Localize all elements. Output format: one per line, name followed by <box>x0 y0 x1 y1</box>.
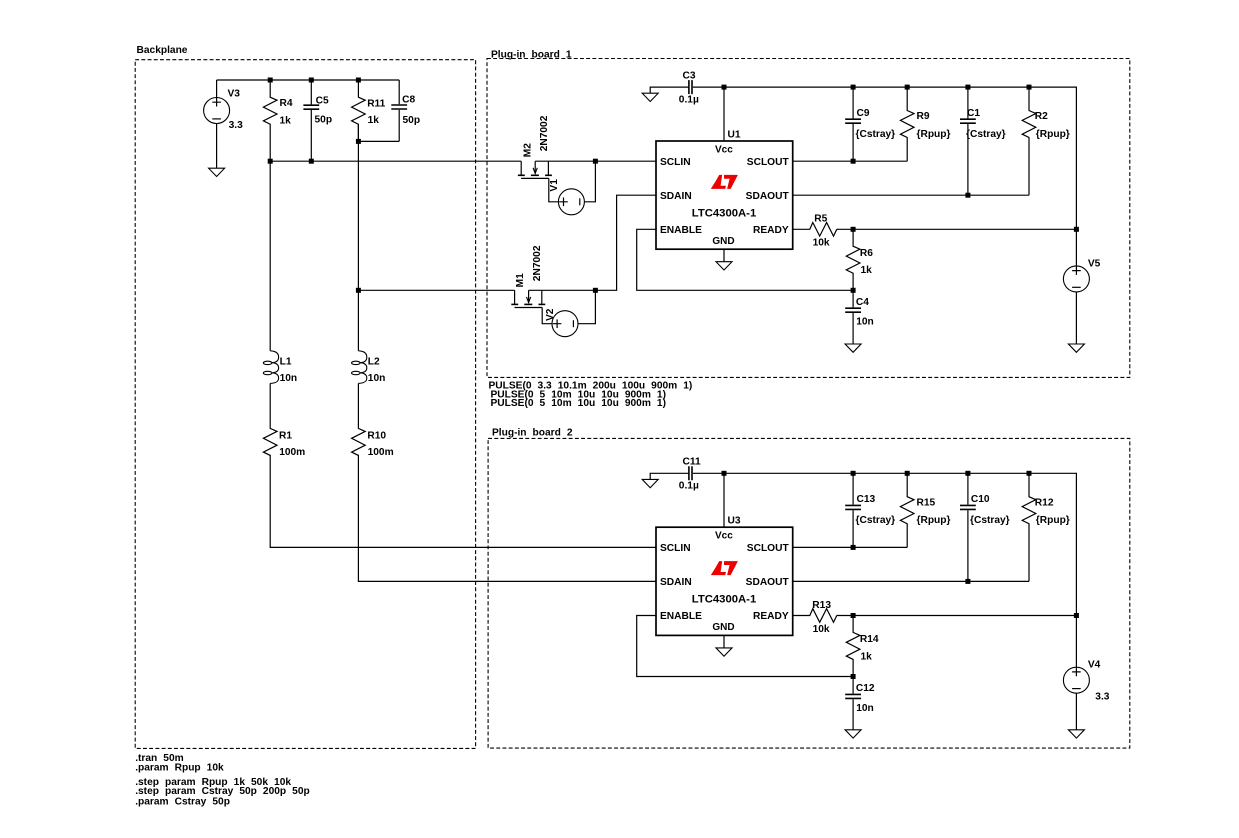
wire V5 bottom lead <box>1075 292 1077 344</box>
svg-text:C5: C5 <box>316 95 329 106</box>
voltage source V4 <box>1063 667 1089 693</box>
svg-text:{Cstray}: {Cstray} <box>966 129 1006 140</box>
svg-text:10n: 10n <box>280 373 298 384</box>
resistor R12 <box>1022 473 1036 581</box>
wire C3 to Vcc rail <box>693 86 724 88</box>
junction SCLOUT2 / C13 <box>851 545 856 550</box>
svg-text:10n: 10n <box>856 317 874 328</box>
svg-text:C13: C13 <box>857 494 876 505</box>
svg-text:{Cstray}: {Cstray} <box>856 129 896 140</box>
svg-text:R9: R9 <box>917 111 930 122</box>
wire SDAOUT (board 2) <box>793 580 1029 582</box>
svg-text:Vcc: Vcc <box>715 531 733 542</box>
svg-text:L2: L2 <box>368 356 380 367</box>
svg-text:2N7002: 2N7002 <box>539 115 550 151</box>
junction ENABLE / C4 <box>851 288 856 293</box>
wire V3 top lead <box>216 80 218 98</box>
svg-text:R15: R15 <box>917 497 936 508</box>
wire SDA column upper <box>357 124 359 351</box>
wire U3 GND pin lead <box>723 635 725 648</box>
capacitor C3 <box>689 80 692 94</box>
voltage source V2 <box>552 311 578 337</box>
svg-text:R5: R5 <box>814 214 827 225</box>
transistor M2 (2N7002 NMOS) <box>520 161 522 175</box>
resistor R13 <box>793 609 837 623</box>
svg-text:C11: C11 <box>683 457 701 468</box>
svg-text:SCLOUT: SCLOUT <box>747 157 790 168</box>
wire V3 bottom lead <box>216 124 218 169</box>
svg-text:{Rpup}: {Rpup} <box>1036 515 1070 526</box>
wire top rail (backplane Vcc) <box>217 79 400 81</box>
svg-text:SDAOUT: SDAOUT <box>746 577 790 588</box>
svg-text:V5: V5 <box>1088 259 1101 270</box>
capacitor C9 <box>852 87 854 118</box>
wire SDA column lower to Plug-in board 2 <box>358 455 656 582</box>
junction SCL / C5 <box>309 159 314 164</box>
junction SDAIN node <box>593 288 598 293</box>
svg-text:10k: 10k <box>813 238 830 249</box>
svg-text:M1: M1 <box>515 273 526 287</box>
wire SCL (backplane bus) <box>270 160 521 162</box>
wire READY node (board 2) <box>837 615 1077 617</box>
resistor R2 <box>1022 87 1036 195</box>
svg-text:C4: C4 <box>856 297 869 308</box>
svg-text:U1: U1 <box>728 129 741 140</box>
voltage source V5 <box>1063 266 1089 292</box>
svg-text:Plug-in board 2: Plug-in board 2 <box>492 428 573 439</box>
wire V1 to SCLIN node <box>584 161 595 202</box>
ground (C4) <box>845 344 861 352</box>
resistor R9 <box>900 87 914 161</box>
svg-text:R12: R12 <box>1035 497 1054 508</box>
ground (V4) <box>1068 730 1084 738</box>
svg-text:U3: U3 <box>728 516 741 527</box>
Backplane boundary (dashed box) <box>135 60 475 749</box>
voltage source V3 <box>204 98 230 124</box>
svg-text:LTC4300A-1: LTC4300A-1 <box>692 207 756 219</box>
svg-text:100m: 100m <box>368 447 394 458</box>
wire C11 to Vcc rail <box>693 472 724 474</box>
svg-text:R10: R10 <box>367 430 386 441</box>
inductor L1 <box>270 351 278 384</box>
svg-text:.param Rpup 10k: .param Rpup 10k <box>135 763 224 774</box>
capacitor C8 <box>398 80 400 104</box>
junction SDAOUT / C1 <box>965 193 970 198</box>
junction READY2 / V4 rail <box>1074 613 1079 618</box>
svg-text:R6: R6 <box>860 248 873 259</box>
junction SCL / R4 column <box>268 159 273 164</box>
wire C8 bottom to R11 column <box>358 140 399 142</box>
wire SDAIN node to corner <box>529 195 656 290</box>
junction rail / R9 <box>905 85 910 90</box>
svg-text:0.1µ: 0.1µ <box>679 94 699 105</box>
resistor R6 <box>846 229 860 290</box>
svg-text:C3: C3 <box>683 70 696 81</box>
junction top rail / C5 <box>309 78 314 83</box>
svg-text:SDAIN: SDAIN <box>660 191 692 202</box>
junction SDAOUT2 / C10 <box>965 579 970 584</box>
wire Vcc rail (board 1) <box>724 87 1076 266</box>
svg-text:M2: M2 <box>522 143 533 157</box>
svg-text:1k: 1k <box>861 651 873 662</box>
ground (C3) <box>642 93 658 101</box>
junction ENABLE2 / C12 <box>851 674 856 679</box>
capacitor C11 <box>689 466 692 480</box>
resistor R4 <box>263 80 277 161</box>
svg-text:{Rpup}: {Rpup} <box>1036 129 1070 140</box>
wire SCLIN node to U1 <box>535 160 656 162</box>
junction rail2 / R12 <box>1027 471 1032 476</box>
svg-text:ENABLE: ENABLE <box>660 225 702 236</box>
wire L2 to R10 <box>357 383 359 428</box>
svg-text:LTC4300A-1: LTC4300A-1 <box>692 594 756 606</box>
capacitor C13 <box>852 473 854 504</box>
svg-text:READY: READY <box>753 611 789 622</box>
junction READY / V5 rail <box>1074 227 1079 232</box>
junction top rail / R11 <box>356 78 361 83</box>
svg-text:L1: L1 <box>280 356 292 367</box>
svg-text:3.3: 3.3 <box>1095 691 1109 702</box>
svg-text:1k: 1k <box>861 265 873 276</box>
wire SCLOUT <box>793 160 908 162</box>
wire SCL column upper <box>269 161 271 351</box>
junction top rail / R4 <box>268 78 273 83</box>
transistor M1 (2N7002 NMOS) <box>514 290 516 304</box>
ground (C11) <box>642 479 658 487</box>
junction rail / Vcc pin <box>722 85 727 90</box>
wire SCLOUT (board 2) <box>793 546 908 548</box>
resistor R11 <box>352 80 366 141</box>
ground (V5) <box>1068 344 1084 352</box>
junction rail2 / C10 <box>965 471 970 476</box>
svg-text:50p: 50p <box>403 115 421 126</box>
junction rail / C1 <box>965 85 970 90</box>
svg-text:R2: R2 <box>1035 111 1048 122</box>
junction READY2 / R14 <box>851 613 856 618</box>
svg-text:V4: V4 <box>1088 660 1101 671</box>
ground (C12) <box>845 730 861 738</box>
wire SCL column lower to Plug-in board 2 <box>270 455 656 548</box>
inductor L2 <box>358 351 366 384</box>
U3 Linear Technology logo <box>711 561 738 575</box>
wire SDA (backplane bus) <box>358 289 514 291</box>
capacitor C5 <box>310 80 312 104</box>
wire M1 gate lead to V2 <box>542 308 552 324</box>
svg-text:SCLOUT: SCLOUT <box>747 543 790 554</box>
svg-text:SCLIN: SCLIN <box>660 157 691 168</box>
svg-text:R14: R14 <box>860 634 879 645</box>
svg-text:SCLIN: SCLIN <box>660 543 691 554</box>
svg-text:V2: V2 <box>545 308 556 321</box>
junction READY / R6 <box>851 227 856 232</box>
junction rail / C9 <box>851 85 856 90</box>
svg-text:R13: R13 <box>812 600 831 611</box>
resistor R5 <box>793 223 837 237</box>
svg-text:SDAIN: SDAIN <box>660 577 692 588</box>
svg-text:C12: C12 <box>856 683 875 694</box>
junction rail2 / C13 <box>851 471 856 476</box>
svg-text:50p: 50p <box>315 115 333 126</box>
capacitor C10 <box>967 473 969 504</box>
svg-text:C8: C8 <box>402 95 415 106</box>
resistor R15 <box>900 473 914 547</box>
capacitor C1 <box>967 87 969 118</box>
junction rail / R2 <box>1027 85 1032 90</box>
wire READY node <box>837 228 1077 230</box>
svg-text:.param Cstray 50p: .param Cstray 50p <box>135 796 230 807</box>
svg-text:Vcc: Vcc <box>715 144 733 155</box>
IC U3 LTC4300A-1 (body) <box>656 527 793 635</box>
svg-text:GND: GND <box>712 622 734 633</box>
Plug-in board 1 boundary (dashed box) <box>487 59 1130 378</box>
wire U3 Vcc pin to rail <box>723 473 725 527</box>
junction SCLOUT / C9 <box>851 159 856 164</box>
svg-text:ENABLE: ENABLE <box>660 611 702 622</box>
voltage source V1 <box>558 189 584 215</box>
wire V4 bottom lead <box>1075 693 1077 730</box>
svg-text:10k: 10k <box>813 624 830 635</box>
wire V2 to SDAIN node <box>578 290 595 323</box>
svg-text:{Rpup}: {Rpup} <box>917 129 951 140</box>
svg-text:V1: V1 <box>549 179 560 192</box>
capacitor C4 <box>852 290 854 307</box>
svg-text:10n: 10n <box>368 373 386 384</box>
svg-text:GND: GND <box>712 236 734 247</box>
svg-text:0.1µ: 0.1µ <box>679 481 699 492</box>
resistor R1 <box>263 428 277 456</box>
svg-text:1k: 1k <box>280 116 292 127</box>
svg-text:{Rpup}: {Rpup} <box>917 515 951 526</box>
IC U1 LTC4300A-1 (body) <box>656 141 793 249</box>
junction SCLIN node <box>593 159 598 164</box>
capacitor C12 <box>852 677 854 694</box>
resistor R10 <box>352 428 366 456</box>
ground (under V3) <box>209 168 225 176</box>
svg-text:10n: 10n <box>856 703 874 714</box>
svg-text:R1: R1 <box>279 430 292 441</box>
svg-text:READY: READY <box>753 225 789 236</box>
svg-text:V3: V3 <box>228 88 241 99</box>
ground (U3 GND) <box>716 648 732 656</box>
junction rail2 / Vcc pin <box>722 471 727 476</box>
wire ENABLE feedback (board 2) <box>637 616 853 677</box>
svg-text:2N7002: 2N7002 <box>532 245 543 281</box>
svg-text:C10: C10 <box>971 494 990 505</box>
wire Vcc rail (board 2) <box>724 473 1076 667</box>
svg-text:R11: R11 <box>367 98 385 109</box>
svg-text:SDAOUT: SDAOUT <box>746 191 790 202</box>
Plug-in board 2 boundary (dashed box) <box>488 438 1130 748</box>
wire ENABLE feedback <box>637 229 853 290</box>
junction C8/R11 column <box>356 139 361 144</box>
junction rail2 / R15 <box>905 471 910 476</box>
wire SDAOUT <box>793 194 1029 196</box>
resistor R14 <box>846 616 860 677</box>
svg-text:{Cstray}: {Cstray} <box>970 515 1010 526</box>
wire L1 to R1 <box>269 383 271 428</box>
ground (U1 GND) <box>716 262 732 270</box>
svg-text:100m: 100m <box>279 447 305 458</box>
junction SDA / R11 column <box>356 288 361 293</box>
svg-text:{Cstray}: {Cstray} <box>856 515 896 526</box>
svg-text:1k: 1k <box>368 115 380 126</box>
svg-text:C9: C9 <box>857 108 870 119</box>
svg-text:3.3: 3.3 <box>229 120 243 131</box>
wire U1 Vcc pin to rail <box>723 87 725 141</box>
svg-text:R4: R4 <box>280 98 293 109</box>
svg-text:Backplane: Backplane <box>137 45 188 56</box>
wire C11 ground stub <box>650 473 689 479</box>
wire U1 GND pin lead <box>723 249 725 262</box>
svg-text:C1: C1 <box>967 108 980 119</box>
wire C3 ground stub <box>650 87 689 93</box>
wire M2 gate lead to V1 <box>549 178 559 201</box>
U1 Linear Technology logo <box>711 175 738 189</box>
svg-text:PULSE(0 5 10m 10u 10u 900m 1): PULSE(0 5 10m 10u 10u 900m 1) <box>491 398 667 409</box>
